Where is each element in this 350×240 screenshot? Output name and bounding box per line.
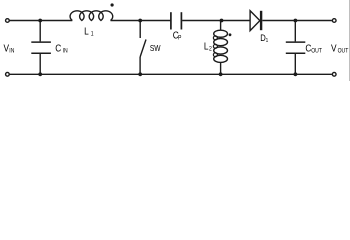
- svg-text:IN: IN: [9, 48, 14, 54]
- svg-text:OUT: OUT: [338, 48, 349, 54]
- svg-text:C: C: [55, 43, 61, 54]
- svg-text:SW: SW: [150, 43, 161, 53]
- svg-text:V: V: [331, 43, 337, 54]
- svg-text:1: 1: [266, 38, 269, 44]
- svg-text:OUT: OUT: [311, 48, 322, 54]
- svg-text:2: 2: [209, 46, 212, 52]
- svg-text:1: 1: [91, 31, 94, 37]
- svg-text:IN: IN: [63, 48, 68, 54]
- svg-text:L: L: [84, 26, 89, 37]
- svg-text:L: L: [204, 41, 209, 52]
- svg-text:P: P: [178, 35, 182, 41]
